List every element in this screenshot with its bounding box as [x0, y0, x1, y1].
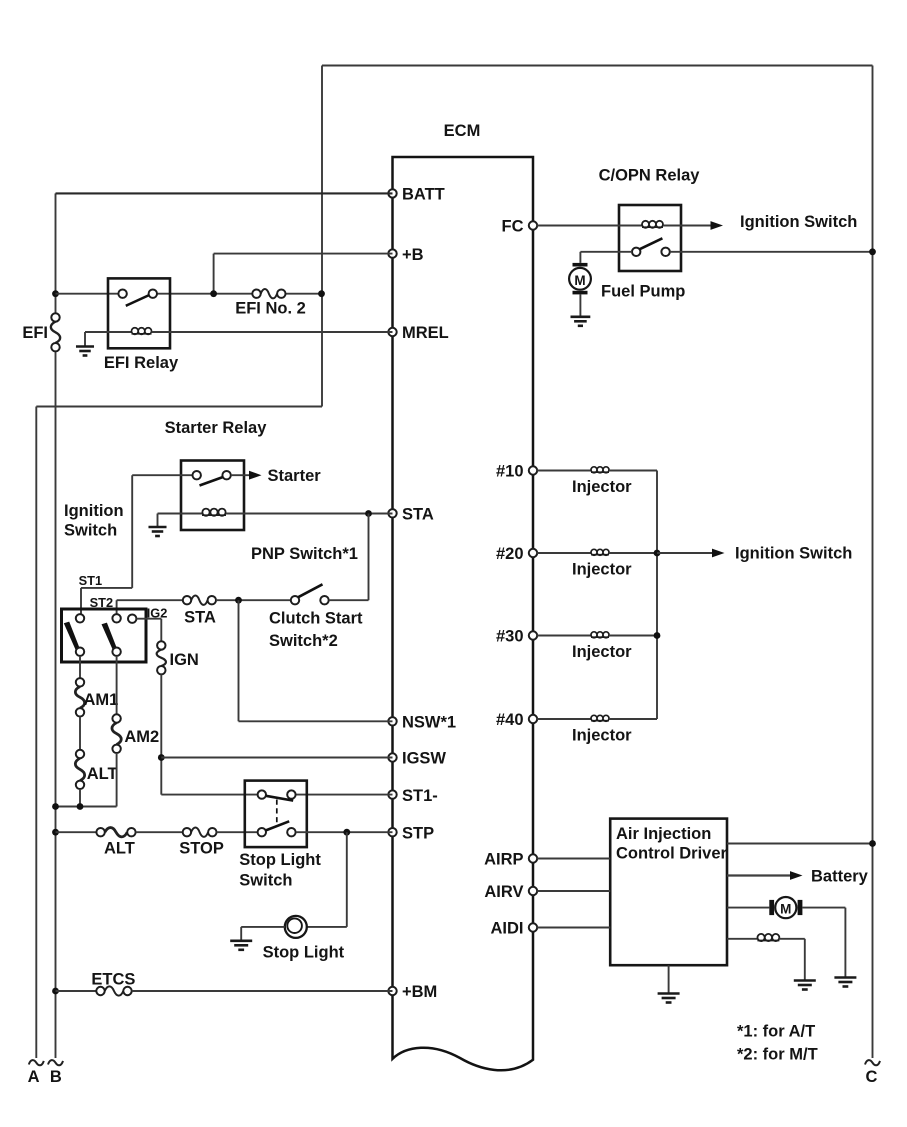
svg-text:Fuel Pump: Fuel Pump [601, 283, 685, 301]
stop light switch top pins [258, 790, 266, 798]
wire injector #20 to rail [609, 552, 657, 554]
svg-text:PNP Switch*1: PNP Switch*1 [251, 545, 358, 563]
terminal C break [865, 1060, 880, 1065]
svg-text:Stop Light: Stop Light [263, 944, 345, 962]
wire starter switch left [132, 474, 192, 476]
pin #20 [529, 549, 537, 557]
wire FC to coil [537, 225, 642, 227]
svg-text:EFI: EFI [22, 324, 48, 342]
fuse STOP [191, 828, 208, 837]
wire ST2 line to fuse [117, 599, 183, 601]
pin STP [388, 828, 396, 836]
wire IGSW [161, 757, 392, 759]
wire STP to switch [217, 831, 258, 833]
svg-text:Clutch Start: Clutch Start [269, 610, 363, 628]
wire AIDI [537, 927, 610, 929]
wire solenoid to ground [779, 938, 804, 940]
ground starter relay stem [157, 514, 159, 527]
svg-text:NSW*1: NSW*1 [402, 714, 456, 732]
svg-text:Injector: Injector [572, 478, 632, 496]
ground EFI relay [76, 347, 94, 356]
terminal A break [29, 1060, 44, 1065]
pin AIRV [529, 887, 537, 895]
svg-text:STA: STA [184, 609, 216, 627]
fuse STA [191, 596, 207, 605]
wire ST1 riser [131, 475, 133, 588]
ground stop light [230, 941, 252, 950]
wire ALT bottom [79, 789, 81, 807]
wire stop light horizontal [307, 926, 347, 928]
pin MREL [388, 328, 396, 336]
wire BATT [56, 192, 393, 194]
module U2 Air Injection Control Driver box [610, 819, 727, 966]
wire ETCS to ECM [132, 990, 393, 992]
arrow to Starter [249, 471, 262, 480]
svg-text:MREL: MREL [402, 324, 449, 342]
fuse ALT (STP line) [105, 828, 127, 837]
stop light switch top blade [266, 796, 293, 801]
ground air motor [834, 978, 856, 987]
svg-text:+BM: +BM [402, 983, 437, 1001]
wire NSW drop [238, 600, 240, 721]
wire AM1 top [79, 656, 81, 678]
wire driver to C rail [727, 843, 873, 845]
svg-text:M: M [780, 902, 791, 917]
svg-text:AIRP: AIRP [484, 851, 523, 869]
wire +B horizontal [214, 253, 393, 255]
svg-text:Switch: Switch [64, 522, 117, 540]
svg-text:AIDI: AIDI [491, 920, 524, 938]
wire ST1 stub [80, 588, 82, 614]
svg-text:Injector: Injector [572, 727, 632, 745]
wire driver to motor [727, 907, 769, 909]
wire EFI switch line left [56, 293, 123, 295]
node C rail lower junction [869, 840, 876, 847]
node +B junction [210, 290, 217, 297]
svg-text:Injector: Injector [572, 561, 632, 579]
pin AIRP [529, 854, 537, 862]
svg-text:Starter Relay: Starter Relay [165, 419, 268, 437]
node NSW branch junction [235, 597, 242, 604]
node IGSW junction [158, 754, 165, 761]
svg-text:FC: FC [502, 218, 524, 236]
pin NSW*1 [388, 717, 396, 725]
wire rail A [35, 407, 37, 1059]
starter relay blade [200, 477, 224, 486]
terminal B break [48, 1060, 63, 1065]
ignition switch pin IG2 [128, 615, 136, 623]
injector coil L4 [591, 471, 609, 473]
wire MREL right segment [152, 331, 393, 333]
wire STA riser [368, 514, 370, 601]
fuse AM1 [75, 687, 84, 709]
wire +B drop [213, 254, 215, 294]
wire injector #40 to rail [609, 718, 657, 720]
svg-text:IGSW: IGSW [402, 750, 446, 768]
wire AM2 top [116, 656, 118, 714]
wire left bus x=322 [321, 66, 323, 407]
motor M2 air pump [769, 897, 802, 918]
motor M1 fuel pump [569, 263, 591, 295]
svg-text:STA: STA [402, 506, 434, 524]
fuse ALT main [75, 758, 84, 780]
wire coil line left [158, 513, 203, 515]
wire rail B upper [55, 193, 57, 313]
pin AIDI [529, 923, 537, 931]
relay K3 C/OPN Relay box [619, 205, 681, 271]
wire rail C [872, 66, 874, 1059]
fuse AM2 [112, 723, 121, 745]
svg-text:Battery: Battery [811, 868, 869, 886]
lamp stop light [285, 916, 307, 938]
wire ST1- left [161, 794, 257, 796]
ignition switch blade 2 [102, 623, 118, 651]
svg-text:*1: for A/T: *1: for A/T [737, 1023, 815, 1041]
pin +B [388, 249, 396, 257]
pin #30 [529, 631, 537, 639]
svg-text:STOP: STOP [179, 840, 224, 858]
wire AM2 bottom [116, 753, 118, 807]
EFI relay contact pins [118, 290, 126, 298]
wire injector #10 to rail [609, 470, 657, 472]
svg-text:Air Injection: Air Injection [616, 825, 711, 843]
wire rail arrow [657, 552, 712, 554]
wire ST2 stub [116, 600, 118, 614]
switch S1 PNP/clutch pins [291, 596, 299, 604]
svg-text:+B: +B [402, 246, 424, 264]
wire ST1- right [296, 794, 393, 796]
wire NSW horizontal [239, 720, 393, 722]
switch S3 stop light switch box [245, 781, 307, 848]
wire EFI No.2 to bus [281, 293, 322, 295]
arrow to battery [790, 871, 803, 880]
wire STP left [56, 831, 97, 833]
ignition switch blade 1 [64, 622, 80, 650]
svg-text:#30: #30 [496, 628, 524, 646]
arrow to ignition switch (injectors) [712, 549, 725, 558]
wire contact to fuel pump [580, 251, 632, 253]
wire contact to C rail [670, 251, 873, 253]
wire bus y=406 [36, 406, 322, 408]
svg-text:EFI Relay: EFI Relay [104, 354, 179, 372]
svg-text:A: A [28, 1068, 40, 1086]
node C rail junction [869, 248, 876, 255]
svg-text:Ignition Switch: Ignition Switch [735, 545, 852, 563]
arrow to ignition switch [711, 221, 724, 230]
fuse EFI [51, 322, 60, 343]
wire AIRP [537, 858, 610, 860]
svg-text:Switch*2: Switch*2 [269, 632, 338, 650]
C/OPN relay blade [639, 238, 662, 249]
svg-text:#20: #20 [496, 545, 524, 563]
wire ETCS left [56, 990, 97, 992]
svg-text:C/OPN Relay: C/OPN Relay [599, 167, 701, 185]
ground EFI relay stem [84, 332, 86, 346]
pin FC [529, 221, 537, 229]
wire injector #30 lead [537, 635, 591, 637]
wire STP to ECM [296, 831, 393, 833]
wire fuse to clutch switch [216, 599, 291, 601]
pin STA [388, 509, 396, 517]
svg-text:ALT: ALT [87, 765, 118, 783]
wire top bus y=65 [322, 65, 873, 67]
stop light switch bottom blade [266, 821, 290, 830]
svg-text:ST1-: ST1- [402, 787, 438, 805]
starter relay coil L2 [202, 514, 226, 516]
ignition switch pin AM2 [112, 648, 120, 656]
svg-text:AM1: AM1 [84, 691, 119, 709]
wire EFI switch line right [153, 293, 257, 295]
wire injector rail [656, 471, 658, 720]
node B STP junction [52, 829, 59, 836]
injector coil L5 [591, 554, 609, 556]
injector coil L6 [591, 636, 609, 638]
wire fuel pump to ground [579, 294, 581, 315]
svg-text:ECM: ECM [444, 122, 481, 140]
svg-text:ST1: ST1 [79, 573, 102, 588]
clutch switch blade [298, 584, 322, 597]
svg-text:M: M [574, 273, 585, 288]
wire rail B lower [55, 351, 57, 1058]
wire driver to solenoid [727, 938, 757, 940]
relay K2 Starter Relay box [181, 461, 244, 531]
svg-text:BATT: BATT [402, 186, 445, 204]
svg-text:#10: #10 [496, 463, 524, 481]
fuse EFI No.2 [261, 289, 277, 298]
svg-text:Stop Light: Stop Light [239, 851, 321, 869]
wire coil line to STA [226, 513, 393, 515]
svg-text:IGN: IGN [170, 651, 199, 669]
ignition switch pin AM1 [76, 648, 84, 656]
pin +BM [388, 987, 396, 995]
wire IGN drop [160, 674, 162, 794]
wire AIRV [537, 890, 610, 892]
ground driver [658, 994, 680, 1003]
wire stop light drop [346, 832, 348, 927]
starter relay contact pins [193, 471, 201, 479]
wire injector #30 to rail [609, 635, 657, 637]
ground solenoid [794, 981, 816, 990]
pin #10 [529, 466, 537, 474]
svg-text:*2: for M/T: *2: for M/T [737, 1046, 818, 1064]
svg-text:AM2: AM2 [124, 728, 159, 746]
pin #40 [529, 715, 537, 723]
svg-text:Control Driver: Control Driver [616, 845, 728, 863]
ground fuel pump [571, 317, 591, 326]
C/OPN relay coil L3 [642, 226, 663, 228]
wire motor to ground [802, 907, 845, 909]
pin ST1- [388, 790, 396, 798]
node STA riser junction [365, 510, 372, 517]
ground starter relay [148, 527, 166, 536]
relay K1 EFI Relay box [108, 278, 170, 348]
stop light switch bottom pins [258, 828, 266, 836]
node B y806 junction [52, 803, 59, 810]
node B/EFI-switch junction [52, 290, 59, 297]
solenoid coil L8 [757, 940, 779, 942]
svg-text:Injector: Injector [572, 643, 632, 661]
wire bus y=806 [56, 806, 117, 808]
ignition switch pin ST1 [76, 614, 84, 622]
pin BATT [388, 189, 396, 197]
EFI relay coil L1 [132, 333, 152, 335]
fuse IGN [157, 650, 166, 666]
svg-text:ETCS: ETCS [91, 971, 135, 989]
wire injector #20 lead [537, 552, 591, 554]
svg-text:Starter: Starter [268, 467, 322, 485]
svg-text:STP: STP [402, 824, 434, 842]
svg-text:#40: #40 [496, 711, 524, 729]
node B ETCS junction [52, 988, 59, 995]
wire injector #10 lead [537, 470, 591, 472]
svg-text:Ignition Switch: Ignition Switch [740, 213, 857, 231]
C/OPN relay contact pins [632, 248, 640, 256]
wire driver battery arrow [727, 874, 790, 876]
node bus x322 junction [318, 290, 325, 297]
node rail #30 junction [654, 632, 661, 639]
node stop light junction [343, 829, 350, 836]
wire lamp to ground [241, 926, 285, 928]
wire STP mid [136, 831, 183, 833]
wire IG2 to IGN [136, 618, 161, 620]
svg-text:C: C [866, 1068, 878, 1086]
svg-text:Switch: Switch [239, 872, 292, 890]
svg-text:Ignition: Ignition [64, 502, 124, 520]
svg-text:B: B [50, 1068, 62, 1086]
wire MREL left segment [85, 331, 132, 333]
svg-text:EFI No. 2: EFI No. 2 [235, 300, 306, 318]
node rail #20 junction [654, 550, 661, 557]
ECM box U1 [393, 157, 534, 1070]
EFI relay blade [126, 295, 150, 306]
fuse ETCS [105, 986, 124, 995]
switch S2 ignition switch box [62, 609, 147, 662]
wire injector #40 lead [537, 718, 591, 720]
wire starter arrow [231, 474, 251, 476]
ignition switch pin ST2 [112, 614, 120, 622]
pin IGSW [388, 753, 396, 761]
wire AM1 to ALT [79, 717, 81, 750]
svg-text:ALT: ALT [104, 840, 135, 858]
injector coil L7 [591, 720, 609, 722]
svg-text:AIRV: AIRV [484, 883, 523, 901]
wire coil to arrow [663, 225, 711, 227]
stop light switch dashed link [276, 800, 278, 824]
node ALT y806 junction [77, 803, 84, 810]
ground driver stem [668, 965, 670, 992]
wire clutch switch right [329, 599, 369, 601]
wire ST1 horizontal [81, 587, 132, 589]
